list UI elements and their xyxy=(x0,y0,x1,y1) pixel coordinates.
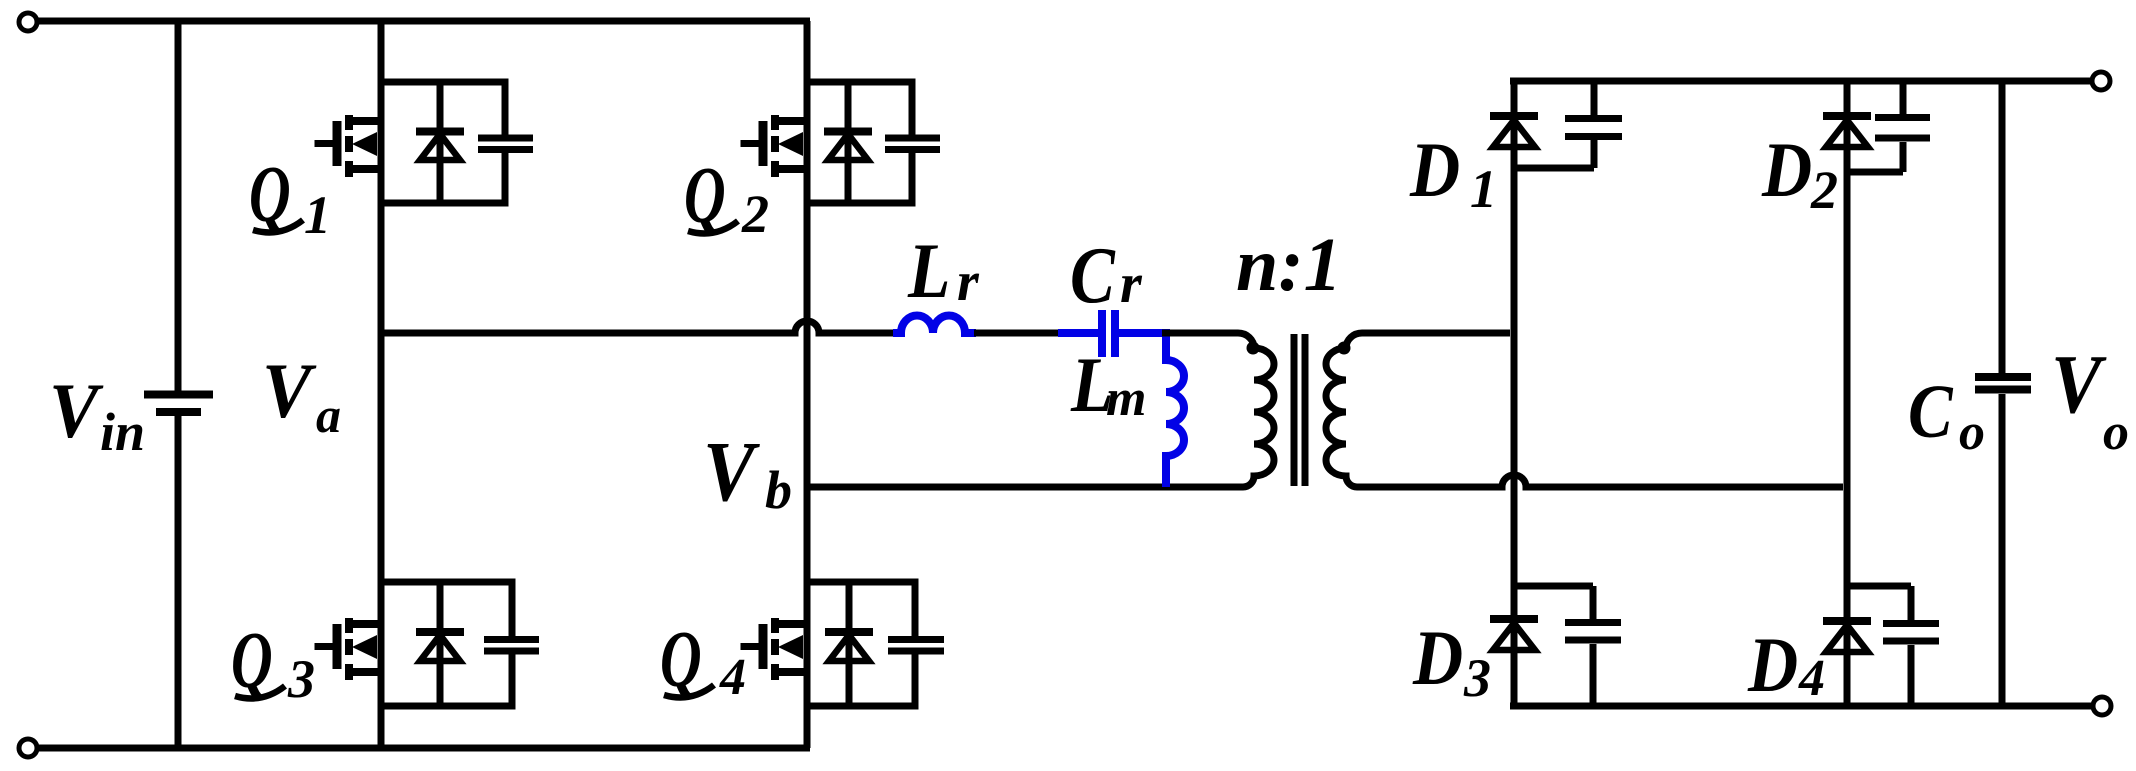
svg-text:2: 2 xyxy=(741,184,769,244)
label n:1 xyxy=(1236,223,1342,307)
wire snubber box Q2 xyxy=(807,82,912,203)
wire Co branch upper xyxy=(1999,81,2006,373)
input terminal top-left xyxy=(19,13,37,31)
svg-text:3: 3 xyxy=(287,649,315,709)
wire tank to primary xyxy=(1162,330,1238,337)
transistor Q2 xyxy=(741,115,808,177)
svg-text:Q: Q xyxy=(231,617,273,705)
svg-text:r: r xyxy=(957,251,980,313)
transformer secondary winding xyxy=(1326,333,1510,487)
snubber capacitor Q2 xyxy=(885,138,940,150)
svg-text:D: D xyxy=(1761,126,1812,213)
svg-text:n:1: n:1 xyxy=(1236,223,1342,307)
svg-text:1: 1 xyxy=(1470,159,1497,219)
svg-text:Q: Q xyxy=(249,151,291,239)
svg-text:D: D xyxy=(1747,621,1798,708)
svg-text:V: V xyxy=(49,368,104,454)
wire Vin rail lower xyxy=(175,416,182,748)
wire top output rail xyxy=(1510,78,2092,85)
label Vin xyxy=(49,368,104,454)
snubber capacitor D2 xyxy=(1847,81,1930,172)
inductor Lr xyxy=(893,316,976,334)
diode D1 xyxy=(1490,116,1538,147)
svg-text:D: D xyxy=(1412,614,1463,701)
label D3 xyxy=(1412,614,1463,701)
wire top input rail xyxy=(37,18,810,25)
svg-text:Q: Q xyxy=(660,616,702,704)
wire right bridge leg xyxy=(804,21,811,748)
capacitor Cr xyxy=(1058,310,1166,357)
label Q2 xyxy=(684,152,726,240)
wire Va to tank (hop over right leg) xyxy=(381,321,896,333)
svg-text:m: m xyxy=(1106,370,1146,427)
wire left bridge leg xyxy=(378,21,385,748)
wire Lr to Cr xyxy=(974,330,1062,337)
transistor Q3 xyxy=(315,618,382,680)
wire Vin rail upper xyxy=(175,21,182,391)
svg-text:C: C xyxy=(1908,370,1954,454)
wire snubber box Q3 xyxy=(381,582,512,706)
body diode Q4 xyxy=(825,582,873,706)
transformer core xyxy=(1294,334,1305,486)
svg-text:L: L xyxy=(907,227,950,314)
svg-text:4: 4 xyxy=(719,649,746,706)
svg-text:D: D xyxy=(1409,126,1460,213)
label Lr xyxy=(907,227,950,314)
wire Co branch lower xyxy=(1999,394,2006,706)
svg-text:o: o xyxy=(2103,404,2129,461)
snubber capacitor D1 xyxy=(1514,81,1622,168)
output terminal top-right xyxy=(2092,72,2110,90)
svg-text:V: V xyxy=(703,423,761,519)
svg-text:o: o xyxy=(1959,404,1985,461)
diode D3 xyxy=(1490,619,1538,650)
svg-text:a: a xyxy=(316,387,341,443)
svg-text:r: r xyxy=(1120,253,1143,315)
node Vb label xyxy=(703,423,761,519)
svg-text:V: V xyxy=(2051,338,2107,431)
source Vin battery xyxy=(144,395,213,413)
snubber capacitor D3 xyxy=(1514,586,1621,706)
label Q1 xyxy=(249,151,291,239)
wire D2-D4 leg xyxy=(1844,81,1851,706)
body diode Q1 xyxy=(416,82,464,203)
svg-text:C: C xyxy=(1070,231,1115,320)
diode D2 xyxy=(1823,116,1871,147)
label D4 xyxy=(1747,621,1798,708)
svg-text:2: 2 xyxy=(1810,160,1838,220)
capacitor Co xyxy=(1975,377,2031,390)
transformer primary winding xyxy=(1234,333,1274,487)
svg-text:V: V xyxy=(262,348,317,434)
primary polarity dot xyxy=(1247,342,1260,355)
wire Vb to transformer primary bottom xyxy=(807,484,1243,491)
inductor Lm xyxy=(1166,329,1184,487)
svg-text:Q: Q xyxy=(684,152,726,240)
snubber capacitor D4 xyxy=(1847,586,1939,706)
wire snubber box Q1 xyxy=(381,82,505,203)
svg-text:b: b xyxy=(765,460,792,520)
body diode Q3 xyxy=(416,582,464,706)
label Q3 xyxy=(231,617,273,705)
label Lm xyxy=(1070,341,1113,428)
label Vo xyxy=(2051,338,2107,431)
wire D1-D3 leg xyxy=(1511,81,1518,706)
svg-text:1: 1 xyxy=(304,185,331,245)
secondary polarity dot xyxy=(1338,342,1351,355)
wire bottom output rail xyxy=(1510,703,2093,710)
label D1 xyxy=(1409,126,1460,213)
svg-text:4: 4 xyxy=(1798,650,1825,707)
wire snubber box Q4 xyxy=(807,582,915,706)
snubber capacitor Q3 xyxy=(484,640,539,652)
body diode Q2 xyxy=(824,82,872,203)
transistor Q4 xyxy=(741,618,808,680)
svg-text:3: 3 xyxy=(1463,648,1491,708)
input terminal bottom-left xyxy=(19,739,37,757)
node Va label xyxy=(262,348,317,434)
label Co xyxy=(1908,370,1954,454)
wire bottom input rail xyxy=(37,745,810,752)
label D2 xyxy=(1761,126,1812,213)
label Cr xyxy=(1070,231,1115,320)
transistor Q1 xyxy=(315,115,382,177)
label Q4 xyxy=(660,616,702,704)
snubber capacitor Q4 xyxy=(888,640,944,652)
svg-text:in: in xyxy=(100,402,145,462)
wire secondary bottom (hop over D1-D3 leg) xyxy=(1357,475,1843,487)
snubber capacitor Q1 xyxy=(478,138,533,150)
output terminal bottom-right xyxy=(2093,697,2111,715)
diode D4 xyxy=(1823,621,1871,652)
